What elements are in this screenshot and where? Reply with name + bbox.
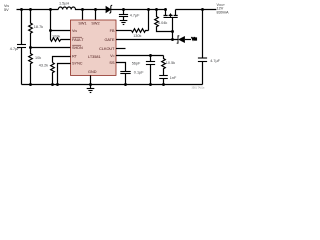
capacitor 1nF (VC compensation) xyxy=(159,76,177,85)
junction dot rail/COUT xyxy=(201,8,204,11)
junction dot rail/0.1uF xyxy=(124,83,127,86)
wire GND pin stub xyxy=(90,75,92,88)
svg-text:43.2k: 43.2k xyxy=(39,63,48,67)
junction dot rail/FB riser xyxy=(147,8,150,11)
junction dot rail/43.2k xyxy=(51,83,54,86)
junction dot gate node xyxy=(171,38,174,41)
wire SS xyxy=(116,63,126,72)
svg-text:FAULT: FAULT xyxy=(72,38,84,42)
wire VIN pin drop xyxy=(51,10,71,31)
svg-text:SW2: SW2 xyxy=(91,22,99,26)
wire CLKOUT stub xyxy=(116,48,126,50)
wire FB xyxy=(116,30,132,32)
svg-text:830mA: 830mA xyxy=(217,10,229,14)
junction dot 18.7k/10k/SHDN xyxy=(29,46,32,49)
resistor 10k (SHDN divider bottom) xyxy=(29,48,42,85)
IC U1 LT3581 xyxy=(71,20,117,75)
wire GATE xyxy=(116,39,178,41)
junction dot VIN/100k xyxy=(49,29,52,32)
wire SHDN xyxy=(31,47,71,49)
junction dot rail/VIN-drop xyxy=(49,8,52,11)
capacitor CIN 4.7uF xyxy=(10,10,26,85)
junction dot rail/CIN xyxy=(20,8,23,11)
junction dot rail/GND stub xyxy=(89,83,92,86)
transistor M1 PMOS (output disconnect) xyxy=(164,8,178,39)
svg-text:10.5k: 10.5k xyxy=(166,61,175,65)
svg-text:10k: 10k xyxy=(35,56,41,60)
svg-text:130k: 130k xyxy=(133,34,141,38)
junction dot rail/SW2 xyxy=(94,8,97,11)
svg-text:GATE: GATE xyxy=(104,38,115,42)
svg-text:VIN: VIN xyxy=(72,29,77,33)
inductor L1 1.5uH xyxy=(58,2,106,10)
resistor 100k (VIN to FAULT pullup) xyxy=(51,31,71,42)
junction dot rail/6.04k xyxy=(155,8,158,11)
resistor 10.5k (VC compensation) xyxy=(162,56,175,76)
svg-text:SHDN: SHDN xyxy=(72,46,83,50)
capacitor 56pF xyxy=(132,56,155,85)
svg-text:SW1: SW1 xyxy=(78,22,86,26)
svg-text:4.7µF: 4.7µF xyxy=(210,59,220,63)
resistor RFB 130k xyxy=(132,29,149,38)
diode D2 zener clamp to VIN xyxy=(177,36,191,43)
svg-text:3581 TA01a: 3581 TA01a xyxy=(192,87,205,90)
svg-text:CLKOUT: CLKOUT xyxy=(99,47,115,51)
junction dot VC/56pF xyxy=(149,54,152,57)
wire FB riser to output rail xyxy=(148,10,150,31)
resistor RT 43.2k xyxy=(39,63,55,85)
wire SYNC xyxy=(58,64,71,85)
svg-text:GND: GND xyxy=(88,70,97,74)
svg-text:56pF: 56pF xyxy=(132,61,141,65)
svg-text:SS: SS xyxy=(109,61,115,65)
svg-text:0.1µF: 0.1µF xyxy=(134,70,144,74)
svg-text:RT: RT xyxy=(72,55,78,59)
svg-text:4.7µF: 4.7µF xyxy=(10,47,20,51)
junction dot 6.04k/gate lead xyxy=(171,30,174,33)
svg-text:18.7k: 18.7k xyxy=(34,25,43,29)
junction dot rail/1nF xyxy=(162,83,165,86)
resistor 18.7k (VIN to SHDN divider top) xyxy=(29,10,43,48)
capacitor 0.1uF (soft start) xyxy=(120,70,144,84)
svg-text:VIN: VIN xyxy=(192,37,197,41)
svg-text:VC: VC xyxy=(110,54,115,58)
ground (GND pin) xyxy=(87,89,95,93)
junction dot rail/SW1 xyxy=(81,8,84,11)
wire SW1 stub xyxy=(82,10,84,21)
junction dot rail/SYNC xyxy=(56,83,59,86)
SHDN overline xyxy=(72,44,81,46)
svg-text:SYNC: SYNC xyxy=(72,62,83,66)
svg-text:6.04k: 6.04k xyxy=(158,21,167,25)
node VIN label xyxy=(4,4,9,12)
svg-text:4.7µF: 4.7µF xyxy=(130,13,140,17)
junction dot rail/10k xyxy=(29,83,32,86)
wire RT xyxy=(53,57,71,63)
capacitor 4.7uF (diode output) xyxy=(119,10,140,21)
FAULT overline xyxy=(72,36,82,38)
wire bottom ground rail xyxy=(22,84,203,86)
svg-text:1nF: 1nF xyxy=(170,76,177,80)
ground (diode output cap) xyxy=(120,21,128,25)
svg-text:100k: 100k xyxy=(52,34,60,38)
junction dot rail/18.7k xyxy=(29,8,32,11)
svg-text:1.5µH: 1.5µH xyxy=(59,2,69,6)
capacitor COUT 4.7uF xyxy=(198,10,221,85)
diode D1 xyxy=(106,5,165,13)
node VOUT label xyxy=(217,3,229,14)
wire SW2 stub xyxy=(95,10,97,21)
resistor 6.04k (gate pullup) xyxy=(155,10,173,32)
svg-text:5V: 5V xyxy=(4,8,9,12)
junction dot rail/cap xyxy=(122,8,125,11)
svg-text:FB: FB xyxy=(110,29,115,33)
junction dot rail/56pF xyxy=(149,83,152,86)
wire VC xyxy=(116,55,164,57)
svg-text:LT3581: LT3581 xyxy=(88,55,101,59)
wire top rail left (VIN to inductor) xyxy=(17,9,59,11)
wire VOUT rail (PMOS drain to output) xyxy=(176,9,217,11)
